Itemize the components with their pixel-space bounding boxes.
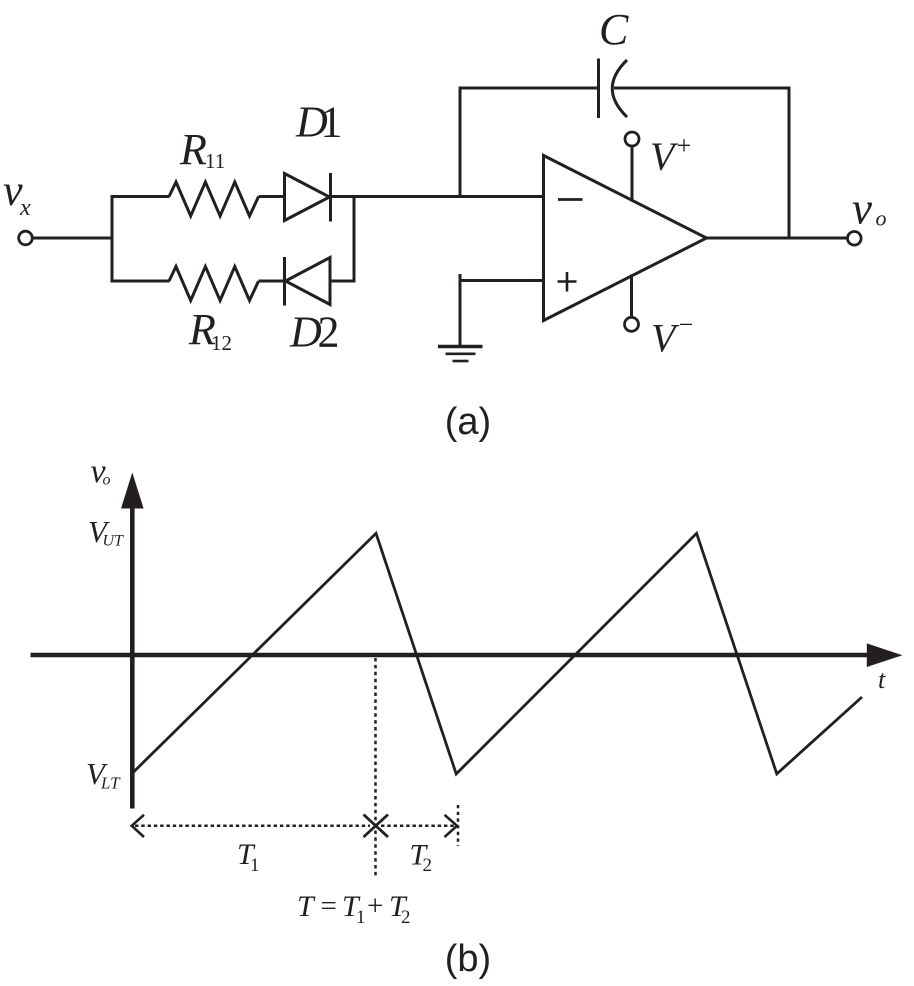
capacitor C left plate [597, 59, 600, 119]
V+ terminal [625, 132, 639, 146]
svg-text:2: 2 [423, 855, 433, 876]
svg-text:1: 1 [321, 98, 343, 147]
svg-text:t: t [878, 665, 886, 694]
op-amp U1 [544, 156, 707, 321]
svg-text:1: 1 [250, 855, 260, 876]
diode D1 [285, 174, 330, 221]
output wire [706, 237, 848, 240]
T2 right arrowhead [445, 815, 458, 837]
svg-text:1: 1 [356, 907, 366, 928]
svg-text:+: + [675, 131, 693, 160]
wire R11 to D1 [259, 195, 286, 198]
svg-text:UT: UT [103, 533, 125, 550]
svg-text:2: 2 [318, 308, 340, 357]
period end tick [457, 805, 460, 846]
t-axis [31, 653, 868, 658]
junction between diode branches [353, 197, 356, 282]
T2 dashed dimension line [381, 825, 455, 828]
op-amp plus input sign [558, 280, 577, 283]
resistor R12 [169, 267, 259, 301]
svg-text:C: C [599, 5, 629, 54]
svg-text:T: T [297, 890, 316, 923]
y-axis arrowhead [121, 473, 144, 509]
svg-text:V: V [651, 316, 680, 361]
waveform [132, 533, 862, 774]
feedback right vertical wire [788, 87, 791, 239]
svg-text:x: x [19, 195, 31, 221]
wire top-left [111, 195, 170, 198]
svg-text:12: 12 [211, 331, 232, 355]
T1 left arrowhead [132, 815, 144, 837]
feedback top wire left [459, 87, 599, 90]
V- terminal [625, 317, 639, 331]
svg-text:o: o [103, 472, 111, 489]
wire non-inverting input [460, 279, 545, 282]
V- supply wire [630, 275, 633, 318]
wire D2 to junction [330, 280, 356, 283]
svg-text:(a): (a) [445, 401, 491, 443]
svg-text:o: o [876, 206, 887, 231]
X junction marker [364, 815, 389, 838]
op-amp minus input sign [558, 198, 583, 201]
svg-text:11: 11 [205, 149, 225, 173]
svg-text:LT: LT [100, 774, 121, 793]
resistor R11 [169, 182, 259, 216]
wire top to op-amp [331, 195, 545, 198]
feedback top wire right [614, 87, 791, 90]
feedback left vertical wire [459, 88, 462, 198]
V+ supply wire [631, 146, 634, 201]
dotted period divider [374, 658, 377, 878]
ground [438, 345, 483, 348]
ground stem [459, 274, 462, 347]
svg-text:−: − [677, 310, 695, 339]
svg-text:2: 2 [401, 907, 411, 928]
wire bottom-left [111, 280, 170, 283]
svg-text:(b): (b) [445, 938, 491, 980]
input terminal vx [19, 231, 33, 245]
svg-text:v: v [852, 184, 872, 234]
node branch vertical [111, 195, 114, 283]
diode D2 [283, 257, 286, 306]
output terminal vo [848, 232, 862, 246]
svg-text:+: + [367, 890, 383, 922]
svg-text:=: = [321, 890, 337, 922]
wire R12 to D2 [259, 280, 286, 283]
svg-text:R: R [179, 125, 207, 174]
wire input [33, 237, 114, 240]
capacitor C right plate arc [612, 60, 627, 117]
t-axis arrowhead [867, 643, 903, 667]
y-axis [130, 506, 135, 809]
T1 dashed dimension line [135, 825, 370, 828]
